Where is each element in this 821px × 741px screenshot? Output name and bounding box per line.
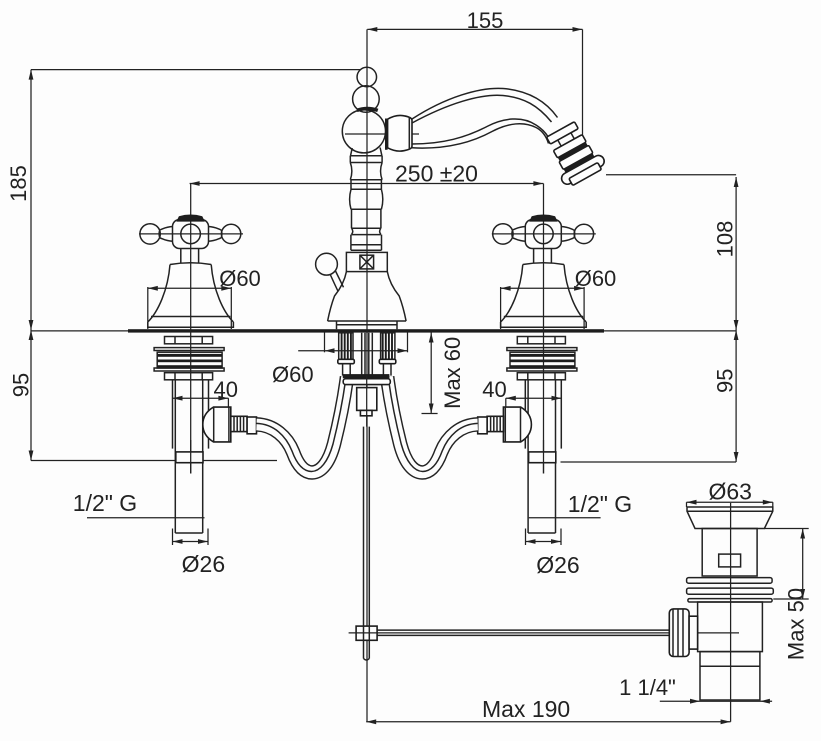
- spout tube: [412, 88, 558, 119]
- column segment cylinder under ball: [350, 156, 382, 163]
- dimension 95 left: [9, 330, 34, 461]
- dimension O63: [687, 479, 773, 508]
- svg-text:1 1/4": 1 1/4": [619, 675, 676, 700]
- column waist 2: [352, 228, 381, 234]
- center top ball: [357, 67, 377, 87]
- dimension 155: [367, 8, 582, 139]
- center column centerline: [366, 29, 368, 721]
- pipe inner: [174, 380, 176, 533]
- drain flange: [687, 507, 773, 529]
- handle dark cap: [176, 215, 205, 222]
- svg-text:1/2" G: 1/2" G: [568, 491, 632, 517]
- drain tailpipe: [700, 652, 760, 700]
- column barrel bulge: [350, 189, 383, 209]
- knurled nipple: [231, 416, 247, 431]
- drain disc 1: [687, 578, 773, 584]
- dimension Max 60: [422, 333, 466, 414]
- left valve assembly: [139, 184, 243, 534]
- dimension 1 1/4: [619, 675, 772, 704]
- drain upper body: [702, 529, 757, 577]
- dome nut: [203, 407, 231, 442]
- ball joint line: [350, 155, 382, 157]
- dimension 40 left: [173, 377, 238, 407]
- handle right neck: [208, 227, 221, 242]
- dimension O60 left: [147, 287, 149, 329]
- collar dark band: [357, 109, 378, 111]
- pop-up rod: [364, 427, 370, 660]
- handle left neck: [160, 227, 173, 242]
- svg-text:250 ±20: 250 ±20: [395, 161, 478, 187]
- mounting bracket plates: [343, 374, 390, 378]
- dimension 250 +-20: [190, 161, 544, 187]
- right hose connector: [478, 407, 532, 442]
- svg-text:185: 185: [6, 165, 31, 202]
- column segment 4: [351, 235, 382, 245]
- lever arm: [330, 271, 344, 291]
- pipe coupling: [176, 452, 203, 463]
- ribbed flange block: [157, 352, 222, 368]
- flange washer upper: [154, 348, 224, 351]
- svg-text:1/2" G: 1/2" G: [73, 490, 137, 516]
- center threaded tail left: [338, 333, 355, 376]
- drain centerline: [730, 503, 732, 722]
- svg-text:95: 95: [713, 368, 738, 392]
- horizontal rod: [377, 629, 669, 631]
- svg-text:155: 155: [467, 8, 504, 33]
- centerline through bracket: [366, 376, 368, 427]
- sprayer head: [540, 118, 608, 189]
- dimension O60 center: [272, 333, 408, 388]
- right valve assembly: [492, 184, 596, 534]
- collar: [247, 417, 256, 434]
- svg-text:Max 60: Max 60: [440, 337, 465, 409]
- bell: [148, 263, 234, 327]
- svg-text:40: 40: [482, 377, 506, 402]
- svg-text:Ø26: Ø26: [182, 551, 225, 577]
- handle hub: [173, 220, 209, 249]
- dimension O26 left: [173, 529, 226, 578]
- rod sleeve between deck and bracket: [362, 333, 373, 376]
- column waist 1: [350, 163, 382, 180]
- svg-text:40: 40: [213, 377, 237, 402]
- dimension Max 190: [366, 696, 730, 724]
- svg-text:95: 95: [9, 373, 34, 397]
- svg-text:Max 50: Max 50: [784, 588, 809, 660]
- drain disc 2: [687, 588, 774, 594]
- column collar: [351, 245, 382, 251]
- deck thin line: [31, 330, 736, 332]
- svg-text:Ø26: Ø26: [536, 552, 579, 578]
- main ball body: [342, 110, 385, 153]
- left hose: [257, 377, 348, 473]
- left hose connector: [203, 407, 257, 442]
- dimension 185: [6, 70, 361, 330]
- handle centerline horizontal: [139, 233, 243, 235]
- svg-text:Ø60: Ø60: [272, 362, 314, 387]
- dimension 108 right: [606, 175, 739, 330]
- reference line 95 depth right: [561, 461, 737, 463]
- deck thick slab: [128, 329, 604, 332]
- center nut: [357, 388, 377, 411]
- handle stem: [181, 249, 199, 263]
- handle right ball: [221, 224, 240, 243]
- svg-text:Ø60: Ø60: [219, 266, 261, 291]
- ball horizontal centerline: [345, 133, 419, 135]
- bell inner line: [151, 316, 230, 318]
- svg-text:Ø60: Ø60: [575, 266, 617, 291]
- spout flange: [385, 119, 388, 150]
- centerline lower: [190, 440, 192, 474]
- center bell: [328, 272, 407, 321]
- handle hub circle: [181, 224, 201, 244]
- right hose: [387, 377, 478, 473]
- drain lower body: [698, 602, 763, 652]
- knurled wheel: [669, 609, 697, 657]
- dimension 95 right: [713, 330, 739, 462]
- flange hex nut upper: [165, 337, 213, 344]
- flange washer lower: [154, 368, 224, 371]
- spout shoulder: [388, 115, 412, 151]
- reference line 95 depth left: [31, 460, 277, 462]
- drain window: [719, 554, 741, 567]
- dimension Max 50: [764, 529, 808, 661]
- center bell plinth: [337, 321, 398, 329]
- svg-text:108: 108: [713, 221, 738, 258]
- svg-text:Max 190: Max 190: [482, 696, 570, 722]
- pipe outer: [172, 380, 174, 449]
- lever ball: [316, 253, 338, 275]
- handle centerline vertical: [190, 184, 192, 474]
- column segment 3: [352, 209, 381, 228]
- pipe bottom: [175, 532, 202, 534]
- flange hex nut lower: [165, 373, 213, 380]
- drain disc 3: [688, 599, 772, 602]
- center second ball: [353, 86, 380, 113]
- column segment 2: [351, 180, 381, 190]
- dimension 40 right: [482, 377, 561, 407]
- dimension O26 right: [526, 529, 580, 579]
- svg-text:Ø63: Ø63: [708, 479, 751, 505]
- handle left ball: [140, 224, 160, 244]
- square nut with X: [346, 252, 387, 271]
- rod clamp: [356, 626, 377, 640]
